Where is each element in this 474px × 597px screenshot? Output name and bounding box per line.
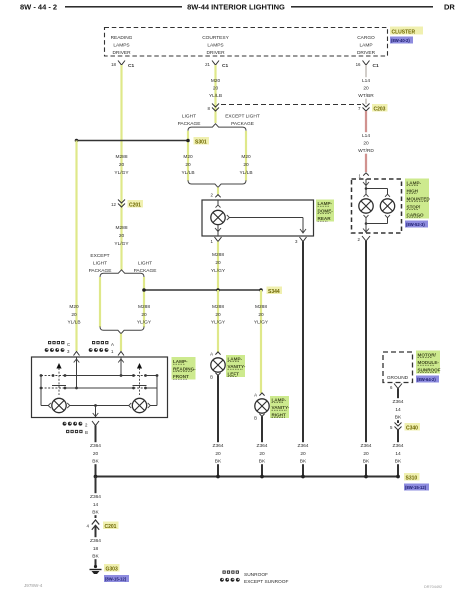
svg-text:LAMPS: LAMPS [113, 43, 129, 49]
front lamp connector variants pin C (sunroof squares) [48, 341, 70, 347]
front lamp pin 1 entry chevron [118, 352, 124, 356]
label LIGHT PACKAGE (courtesy split left) [178, 114, 201, 128]
svg-text:M288: M288 [212, 252, 224, 258]
label Z364 20 BK (vanity right) [255, 442, 269, 464]
svg-text:(8W-40-2): (8W-40-2) [391, 38, 410, 43]
svg-text:(8W-64-2): (8W-64-2) [417, 377, 436, 382]
junction dot front lamp [94, 475, 98, 479]
svg-text:CLUSTER: CLUSTER [392, 30, 416, 36]
dome lamp pin 1 exit [211, 237, 222, 244]
label M288 20 YL/GY (light package branch) [137, 304, 152, 326]
svg-text:(8W-15-12): (8W-15-12) [105, 577, 127, 582]
label L14 20 WT/BR [358, 77, 374, 99]
connector C1 pin 16 [356, 61, 379, 70]
legend except-sunroof circles [220, 578, 288, 585]
svg-text:LEFT: LEFT [228, 372, 240, 377]
svg-text:14: 14 [395, 407, 401, 413]
label LIGHT PACKAGE (reading split right) [134, 261, 157, 274]
svg-text:20: 20 [215, 260, 221, 266]
svg-text:20: 20 [215, 312, 221, 318]
svg-text:Z364: Z364 [90, 538, 101, 544]
svg-text:C1: C1 [222, 63, 228, 69]
svg-text:20: 20 [259, 451, 265, 457]
svg-text:EXCEPT: EXCEPT [90, 253, 109, 259]
svg-text:VANITY-: VANITY- [272, 405, 290, 410]
svg-text:LAMP: LAMP [359, 43, 372, 49]
front lamp connector variants pin 1 (except sunroof circles) [89, 348, 114, 354]
svg-text:18: 18 [111, 62, 116, 67]
svg-text:SUNROOF: SUNROOF [244, 572, 268, 578]
wire reading except-light-package branch (yellow) [99, 277, 101, 327]
lamp-dome-rear box [202, 200, 314, 236]
front lamp right switch (dashed actuator with arrow) [133, 363, 147, 395]
front lamp right bulb [129, 398, 151, 412]
wire vanity left to bus (black) [217, 375, 219, 476]
svg-text:C1: C1 [373, 63, 379, 69]
svg-text:WT/RD: WT/RD [358, 148, 374, 154]
svg-text:EXCEPT LIGHT: EXCEPT LIGHT [225, 114, 260, 120]
svg-text:BK: BK [395, 459, 402, 465]
svg-text:A: A [254, 393, 257, 398]
dome lamp pin 2 entry [211, 193, 221, 198]
svg-text:20: 20 [185, 162, 191, 168]
label Z364 14 BK (sunroof drop) [391, 442, 405, 464]
svg-text:READING: READING [111, 35, 133, 41]
dome lamp bottom contact to pin 1 [215, 225, 221, 237]
svg-text:DRIVER: DRIVER [112, 50, 131, 56]
CLUSTER tag [390, 27, 423, 36]
label Z364 20 BK (vanity left) [211, 442, 225, 464]
svg-text:DR704492: DR704492 [424, 585, 442, 589]
cluster box (dashed) [105, 28, 388, 57]
front lamp exit variants pin B (squares) [66, 430, 88, 435]
svg-text:B: B [85, 430, 88, 435]
front lamp left bulb [48, 398, 70, 412]
svg-text:YL/LB: YL/LB [209, 93, 222, 99]
label M20 20 YL/LB (light package branch) [181, 154, 194, 176]
label M288 20 YL/GY upper [114, 154, 129, 176]
front lamp left switch (dashed actuator with arrow) [52, 363, 66, 395]
svg-text:14: 14 [93, 502, 99, 508]
svg-text:(8W-15-12): (8W-15-12) [405, 485, 427, 490]
svg-text:DOME-: DOME- [318, 209, 334, 214]
svg-text:LIGHT: LIGHT [93, 261, 107, 267]
junction dot dome [301, 475, 305, 479]
svg-text:YL/LB: YL/LB [181, 170, 194, 176]
svg-text:G303: G303 [106, 567, 118, 573]
svg-text:20: 20 [119, 162, 125, 168]
svg-text:PACKAGE: PACKAGE [231, 121, 254, 127]
svg-text:Z364: Z364 [393, 443, 404, 449]
svg-text:LAMP-: LAMP- [272, 398, 287, 403]
wire dome pin3 (black) to ground bus [302, 242, 304, 477]
wire courtesy light-package branch to S301 [187, 131, 189, 181]
label M20 20 YL/LB (far left wire) [67, 304, 80, 326]
wire to ground G303 [95, 538, 97, 567]
svg-text:S301: S301 [195, 140, 207, 146]
splice S310 [396, 473, 419, 482]
svg-text:SUNROOF: SUNROOF [418, 368, 441, 373]
cargo lamp pin 1 entry [359, 173, 369, 179]
svg-text:MOUNTED: MOUNTED [407, 197, 431, 202]
svg-text:20: 20 [243, 162, 249, 168]
svg-text:C201: C201 [129, 203, 141, 209]
svg-text:20: 20 [215, 451, 221, 457]
svg-text:PACKAGE: PACKAGE [178, 121, 201, 127]
svg-text:LAMP-: LAMP- [407, 181, 422, 186]
svg-text:STOP/: STOP/ [407, 205, 421, 210]
cargo ref (8W-52-3) [405, 221, 428, 228]
svg-text:A: A [111, 342, 114, 347]
svg-text:YL/LB: YL/LB [67, 320, 80, 326]
svg-text:BK: BK [363, 459, 370, 465]
reading split brace [100, 270, 144, 277]
front lamp right rail 1 (dashed with contacts) [121, 374, 158, 377]
svg-text:YL/GY: YL/GY [211, 268, 226, 274]
svg-text:20: 20 [71, 312, 77, 318]
svg-text:YL/LB: YL/LB [239, 170, 252, 176]
label Z364 14 BK (upper sunroof) [391, 398, 405, 420]
svg-text:M20: M20 [69, 304, 79, 310]
front lamp internal entry 1 line [118, 357, 124, 377]
svg-text:FRONT: FRONT [173, 374, 189, 379]
tag LAMP-DOME-REAR [316, 200, 334, 222]
svg-text:20: 20 [363, 141, 369, 147]
cargo lamp bulb 2 [380, 199, 394, 213]
wire bus to C201 (black) [95, 477, 97, 519]
splice S344 line [142, 287, 282, 296]
header left rule [65, 6, 182, 8]
svg-text:Z364: Z364 [90, 443, 101, 449]
svg-text:CARGO: CARGO [407, 213, 425, 218]
wire reading merged to front lamp pin 1 [120, 334, 122, 351]
lamp vanity left pin B [210, 373, 221, 380]
dome lamp right contact and internal wire to pin 3 [227, 215, 306, 233]
wire reading light-package branch (yellow) to S344 [143, 277, 145, 327]
wire merged courtesy to dome lamp pin 2 [217, 187, 219, 194]
label Z364 14 BK (to C201) [89, 493, 103, 515]
cargo lamp bulb 1 [359, 199, 373, 213]
junction dot vanity right [260, 475, 264, 479]
label L14 20 WT/RD [358, 132, 374, 154]
svg-text:M288: M288 [255, 304, 267, 310]
wire M20 courtesy driver (yellow) from C1 to C203 [214, 65, 216, 123]
svg-text:A: A [210, 352, 213, 357]
lamp high mounted stop / cargo box (dashed) [352, 179, 402, 233]
CLUSTER ref (8W-40-2) [390, 37, 413, 44]
label Z364 20 BK (cargo) [359, 442, 373, 464]
svg-text:14: 14 [395, 451, 401, 457]
front lamp left rail 1 (dashed with contacts) [40, 374, 121, 377]
label M288 20 YL/GY (dome pin1) [211, 252, 226, 274]
dome lamp bulb [211, 210, 225, 224]
svg-text:18: 18 [93, 546, 99, 552]
svg-text:C203: C203 [374, 107, 386, 113]
wire courtesy except-light-package branch [245, 131, 247, 181]
dome lamp pin 3 exit [295, 237, 306, 244]
connector C201 pin 12 (in-line, reading wire) [111, 200, 143, 209]
svg-text:EXCEPT SUNROOF: EXCEPT SUNROOF [244, 579, 288, 585]
lamp-reading-front box [32, 357, 168, 418]
cargo lamp internal bottom return [363, 215, 390, 233]
svg-text:YL/GY: YL/GY [211, 320, 226, 326]
svg-text:(8W-52-3): (8W-52-3) [406, 222, 425, 227]
svg-text:8W - 44 - 2: 8W - 44 - 2 [20, 3, 57, 12]
label Z364 20 BK (front lamp) [89, 442, 103, 464]
svg-text:DRIVER: DRIVER [357, 50, 376, 56]
label EXCEPT LIGHT PACKAGE (reading split left) [89, 253, 112, 274]
svg-text:M288: M288 [116, 225, 128, 231]
svg-text:CARGO: CARGO [357, 35, 375, 41]
tag LAMP-READING-FRONT [172, 357, 197, 380]
svg-text:M288: M288 [212, 304, 224, 310]
front lamp connector variants pin 3 (except sunroof circles) [45, 348, 70, 354]
front lamp internal entry 3 line [74, 357, 80, 389]
svg-text:21: 21 [205, 62, 210, 67]
lamp vanity left bulb [211, 358, 225, 372]
tag LAMP-VANITY-RIGHT [270, 396, 290, 418]
svg-text:COURTESY: COURTESY [202, 35, 229, 41]
wire S344 to vanity right (yellow) [260, 290, 262, 393]
connector C340 pin 5 [390, 423, 420, 432]
wire vanity right to bus (black) [261, 416, 263, 476]
label M288 20 YL/GY lower [114, 225, 129, 247]
label Z364 18 BK (to G303) [89, 537, 103, 559]
svg-text:BK: BK [215, 459, 222, 465]
courtesy merge brace [188, 180, 246, 187]
S310 ref (8W-15-12) [404, 484, 429, 491]
connector C203 dashed link line [221, 104, 361, 106]
sunroof ref (8W-64-2) [416, 376, 439, 383]
reading merge brace [100, 327, 144, 334]
svg-text:L14: L14 [362, 133, 370, 139]
cargo lamp internal top feed [363, 179, 390, 197]
svg-text:BK: BK [259, 459, 266, 465]
connector C1 pin 18 [111, 61, 134, 70]
svg-text:Z364: Z364 [361, 443, 372, 449]
connector C201 pin 4 (bottom, facing up) [87, 520, 119, 538]
svg-text:20: 20 [141, 312, 147, 318]
cluster label READING LAMPS DRIVER [111, 35, 133, 56]
svg-text:Z364: Z364 [298, 443, 309, 449]
svg-text:M288: M288 [138, 304, 150, 310]
svg-text:B: B [254, 416, 257, 421]
svg-text:LAMPS: LAMPS [207, 43, 223, 49]
tag LAMP-HIGH MOUNTED STOP/CARGO [405, 179, 430, 219]
lamp vanity left pin A [210, 352, 221, 357]
svg-text:GROUND: GROUND [387, 375, 409, 381]
connector C203 pin 7 (cargo) [358, 104, 387, 113]
front lamp pin 3 entry chevron [74, 352, 80, 356]
svg-text:DR: DR [444, 3, 455, 12]
svg-text:M288: M288 [116, 154, 128, 160]
motor/module sunroof box (dashed) [383, 352, 413, 383]
svg-text:HIGH: HIGH [407, 189, 419, 194]
label EXCEPT LIGHT PACKAGE (courtesy split right) [225, 114, 260, 128]
svg-text:S310: S310 [406, 476, 418, 482]
svg-text:20: 20 [213, 86, 219, 92]
wire cargo lamp to bus (black) [365, 241, 367, 477]
svg-text:BK: BK [92, 510, 99, 516]
svg-text:YL/GY: YL/GY [114, 170, 129, 176]
cargo lamp pin 2 exit [358, 236, 370, 242]
front lamp center return to pin 2 [70, 404, 129, 417]
svg-text:M20: M20 [211, 78, 221, 84]
dome lamp internal feed with arrow [216, 200, 221, 208]
connector C203 pin 8 (courtesy) [208, 104, 219, 112]
junction dot cargo [364, 475, 368, 479]
label Z364 20 BK (dome) [296, 442, 310, 464]
wire cargo L14 WT/BR from C1 to C203 (white/brown) [365, 65, 367, 104]
svg-text:YL/GY: YL/GY [114, 241, 129, 247]
svg-text:RIGHT: RIGHT [272, 413, 286, 418]
svg-text:LAMP-: LAMP- [228, 357, 243, 362]
header right rule [291, 6, 433, 8]
svg-text:C201: C201 [105, 524, 117, 530]
svg-text:MODULE-: MODULE- [418, 360, 440, 365]
svg-text:LIGHT: LIGHT [182, 114, 196, 120]
svg-text:LIGHT: LIGHT [138, 261, 152, 267]
label M288 20 YL/GY (vanity right) [254, 304, 269, 326]
svg-text:S344: S344 [268, 289, 280, 295]
svg-text:M20: M20 [183, 154, 193, 160]
wire M20 from S301 to front lamp pin 3 (yellow, far left) [75, 141, 77, 352]
front lamp rail 2 [40, 387, 157, 390]
svg-text:L14: L14 [362, 78, 370, 84]
wire front lamp to bus (black) [95, 426, 97, 477]
lamp vanity right pin A [254, 393, 265, 398]
wire cargo L14 WT/RD from C203 to cargo lamp (white/red) [365, 111, 367, 172]
svg-text:C1: C1 [128, 63, 134, 69]
svg-text:YL/GY: YL/GY [254, 320, 269, 326]
courtesy split brace [188, 124, 246, 131]
cluster label CARGO LAMP DRIVER [357, 35, 376, 56]
svg-text:20: 20 [300, 451, 306, 457]
tag LAMP-VANITY-LEFT [226, 355, 246, 377]
svg-text:MOTOR/: MOTOR/ [418, 353, 437, 358]
svg-text:20: 20 [363, 451, 369, 457]
wire M288 reading driver (yellow) from C1 to split [120, 65, 122, 270]
label M288 20 YL/GY (vanity left) [211, 304, 226, 326]
splice S301 line [75, 137, 209, 146]
svg-text:Z364: Z364 [213, 443, 224, 449]
svg-text:Z364: Z364 [90, 494, 101, 500]
G303 ref (8W-15-12) [104, 575, 129, 582]
svg-text:BK: BK [395, 415, 402, 421]
front lamp right feeder to bulb [150, 376, 157, 406]
lamp vanity right bulb [255, 399, 269, 413]
svg-text:C: C [67, 342, 70, 347]
connector C1 pin 21 [205, 61, 228, 70]
junction dot vanity left [216, 475, 220, 479]
svg-text:Z364: Z364 [257, 443, 268, 449]
svg-text:LAMP-: LAMP- [318, 201, 333, 206]
tag G303 [104, 564, 120, 573]
wire sunroof ground upper (black) [397, 389, 399, 424]
sunroof pin 6 exit [390, 384, 402, 391]
svg-text:20: 20 [93, 451, 99, 457]
svg-text:C340: C340 [406, 426, 418, 432]
svg-text:8W-44 INTERIOR LIGHTING: 8W-44 INTERIOR LIGHTING [187, 3, 285, 12]
wire dome pin1 (yellow) to S344 [217, 242, 219, 291]
svg-text:M20: M20 [241, 154, 251, 160]
front lamp connector variants pin A (sunroof squares) [92, 341, 114, 347]
svg-text:BK: BK [92, 554, 99, 560]
svg-text:B: B [210, 375, 213, 380]
svg-text:REAR: REAR [318, 216, 332, 221]
front lamp left feeder to bulb [41, 376, 48, 406]
svg-text:16: 16 [356, 62, 361, 67]
label M20 20 YL/LB (courtesy) [209, 78, 222, 99]
lamp vanity right pin B [254, 414, 265, 421]
svg-text:20: 20 [258, 312, 264, 318]
svg-text:20: 20 [363, 86, 369, 92]
wire S344 to vanity left (yellow) [217, 290, 219, 352]
cluster label COURTESY LAMPS DRIVER [202, 35, 229, 56]
front lamp pin 2 exit chevron [92, 421, 99, 426]
svg-text:VANITY-: VANITY- [228, 364, 246, 369]
svg-text:J978W-4: J978W-4 [24, 583, 43, 588]
svg-text:WT/BR: WT/BR [358, 93, 374, 99]
label M20 20 YL/LB (except light package branch) [239, 154, 252, 176]
tag MOTOR/MODULE-SUNROOF [416, 351, 441, 374]
svg-text:READING-: READING- [173, 367, 196, 372]
front lamp exit variants pin 2 (circles) [63, 422, 88, 428]
ground bus line [96, 476, 399, 478]
wire sunroof ground lower (black) [397, 430, 399, 477]
svg-text:DRIVER: DRIVER [206, 50, 225, 56]
svg-text:12: 12 [111, 202, 116, 207]
svg-text:BK: BK [92, 459, 99, 465]
svg-text:BK: BK [300, 459, 307, 465]
svg-text:20: 20 [119, 233, 125, 239]
svg-text:Z364: Z364 [393, 399, 404, 405]
ground G303 symbol [90, 565, 102, 574]
svg-text:LAMP-: LAMP- [173, 359, 188, 364]
legend sunroof squares [223, 571, 269, 579]
svg-text:YL/GY: YL/GY [137, 320, 152, 326]
